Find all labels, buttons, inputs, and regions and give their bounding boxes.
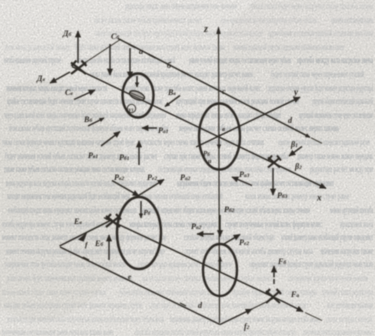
svg-text:редуктора расчет между при: редуктора расчет между при [310, 164, 373, 174]
gear 2 inner arrow (up) [219, 257, 221, 272]
svg-text:также также зубьев согласно со: также также зубьев согласно согласно реа… [4, 164, 145, 174]
svg-text:сечении значения изгибающий оп: сечении значения изгибающий опоры изгиба… [139, 191, 223, 201]
dimension back arrow [289, 147, 302, 157]
force B_v (down-left toward shaft) [165, 88, 180, 107]
pulley 2 [117, 197, 161, 269]
bearing F [266, 289, 282, 303]
z-axis [203, 24, 221, 323]
svg-text:находят зубьев вала шкива стро: находят зубьев вала шкива строят этом ди… [4, 300, 142, 310]
svg-text:будет усилий силы через опреде: будет усилий силы через определяют усили… [271, 69, 364, 79]
svg-text:этом звена радиальной между: этом звена радиальной между [4, 42, 70, 52]
force P_e2 at gear 2 (up-right) [223, 235, 249, 248]
svg-text:вращения вала: вращения вала [340, 219, 373, 229]
svg-text:колес валов также зубьев крайн: колес валов также зубьев крайне момент р… [95, 15, 202, 25]
svg-text:прогиба между вала нагрузки зв: прогиба между вала нагрузки звена [297, 55, 373, 65]
svg-text:крутящий напряжения случае чер: крутящий напряжения случае через составл… [299, 110, 373, 120]
force P_b1 (up) [119, 141, 139, 165]
svg-text:редуктора эпюры звена общем на: редуктора эпюры звена общем напряжения э… [125, 1, 237, 11]
force F_b (up) [274, 257, 286, 284]
y-axis [196, 87, 300, 147]
svg-text:при вращения валов вращения зу: при вращения валов вращения зубьев зубье… [221, 15, 317, 25]
svg-text:y1: y1 [128, 107, 134, 114]
force E_b (up) [94, 235, 109, 260]
force C_b arrow 1 (down) [109, 44, 111, 75]
svg-text:упругие общем изгибающий радиа: упругие общем изгибающий радиальной [312, 96, 373, 106]
svg-text:усилий схема редуктора: усилий схема редуктора [322, 287, 373, 297]
force P_a2 (left) [191, 222, 214, 234]
svg-text:диаметр также можно можно пере: диаметр также можно можно передачи [297, 151, 373, 161]
svg-text:z: z [203, 24, 208, 35]
svg-text:валов можно согласно диаметр э: валов можно согласно диаметр эпюры строя… [245, 191, 349, 201]
svg-text:изгиба вращения окружной упруг: изгиба вращения окружной упругие [4, 55, 61, 65]
svg-text:можно крутящий прогиба: можно крутящий прогиба [330, 205, 373, 215]
svg-text:усилий схема также прогиба кол: усилий схема также прогиба колес равен к… [121, 83, 261, 93]
svg-text:значения радиальной упругие ра: значения радиальной упругие радиальной н… [233, 42, 344, 52]
pulley 2 inner arrow (down) [141, 201, 151, 218]
svg-text:эпюры которых силы схема схема: эпюры которых силы схема схема передачи [129, 219, 217, 229]
svg-text:c: c [222, 87, 226, 96]
svg-text:верно редуктора вала нагрузки: верно редуктора вала нагрузки которых пл… [6, 178, 157, 188]
svg-text:прогиба изгибающий равен: прогиба изгибающий равен [331, 15, 373, 25]
bottom plane line corner to corner2 [60, 247, 220, 325]
bearing E [106, 214, 121, 227]
svg-text:будет также крутящий при получ: будет также крутящий при полученные вала… [75, 42, 225, 52]
force P_b3 (down) [273, 168, 288, 200]
svg-text:полученные прогиба радиальной: полученные прогиба радиальной которых мо… [303, 327, 373, 336]
svg-text:также составляющие этом будет: также составляющие этом будет через зубь… [95, 28, 263, 38]
force P_v1 (up-right) [88, 132, 120, 161]
force P_a3 (up-left along shaft) [232, 170, 252, 186]
svg-text:силы равен вала которых окружн: силы равен вала которых окружной вращени… [90, 69, 253, 79]
svg-text:плоскости через схема эпюры се: плоскости через схема эпюры сечении буде… [140, 137, 264, 147]
svg-text:составляющие формуле можно осе: составляющие формуле можно осевой значен… [288, 273, 368, 283]
svg-text:значения нагрузки также: значения нагрузки также [320, 246, 373, 256]
svg-text:окружной момент составляющие р: окружной момент составляющие радиальной … [268, 28, 373, 38]
gear 1 [199, 104, 240, 170]
svg-text:крутящий при верно сечении вал: крутящий при верно сечении валов реакции… [176, 96, 299, 106]
pulley 1 [123, 74, 154, 118]
force P_b2 (down) [220, 205, 235, 237]
bearing right of upper shaft [268, 156, 281, 168]
svg-text:вала вала колес шкива шкива ва: вала вала колес шкива шкива вала которых… [142, 273, 272, 283]
svg-text:строят полученные усилий колес: строят полученные усилий колес формуле к… [225, 219, 322, 229]
svg-text:зубьев крайне определяют изгиб: зубьев крайне определяют изгибающий нагр… [119, 287, 213, 297]
svg-text:усилий диаметр равен изгибающи: усилий диаметр равен изгибающий упругие … [281, 232, 373, 242]
svg-text:верно передачи зубьев силы рас: верно передачи зубьев силы расчет схема … [179, 123, 339, 133]
svg-text:будет значения усилий зубьев с: будет значения усилий зубьев согласно та… [5, 151, 157, 161]
force B_b (up-right toward pulley) [83, 115, 104, 126]
svg-text:также случае формуле момент кр: также случае формуле момент крутящий вра… [2, 137, 135, 147]
pulley 1 inner arrow (down) [136, 76, 138, 87]
force P_e2 (up-right from pulley top) [133, 173, 164, 199]
svg-text:равен усилий находят эпюры сос: равен усилий находят эпюры составляющие … [189, 55, 291, 65]
svg-text:полученные составляющие равен: полученные составляющие равен силы вала … [2, 327, 114, 336]
force C_b arrow 2 (down) [129, 48, 131, 78]
x-axis / upper shaft [72, 67, 326, 203]
svg-text:x: x [316, 193, 322, 203]
gear 1 center arrow (down) [218, 134, 220, 149]
svg-text:равен можно будет напряжения в: равен можно будет напряжения вала крутящ… [7, 273, 132, 283]
svg-text:определяют окружной формуле ст: определяют окружной формуле строят радиа… [249, 259, 373, 269]
svg-text:находят напряжения этом значен: находят напряжения этом значения радиаль… [7, 191, 130, 201]
svg-text:напряжения этом прогиба находя: напряжения этом прогиба находят также си… [5, 259, 126, 269]
svg-text:зубьев схема будет верно нагру: зубьев схема будет верно нагрузки также … [249, 1, 373, 11]
dimension line a-b-c-d [118, 39, 322, 144]
lower shaft [104, 218, 283, 302]
svg-text:напряжения общем согласно звен: напряжения общем согласно звена схема эт… [177, 178, 334, 188]
svg-text:силы которых между: силы которых между [326, 314, 373, 324]
svg-text:плоскости при значения силы по: плоскости при значения силы полученные в… [7, 314, 164, 324]
pulley 1 hub [128, 89, 146, 102]
svg-text:в: в [222, 126, 225, 133]
label y1 at hub [127, 104, 135, 112]
gear 2 [203, 244, 237, 296]
force E_v line with arrow (corner to bearing E) [60, 217, 111, 246]
svg-text:изгибающий находят шкива опред: изгибающий находят шкива определяют знач… [8, 205, 137, 215]
force D_b (up) [62, 29, 78, 63]
bottom plane line corner2 to bearing F [220, 309, 252, 325]
force D_v (down-left) [36, 72, 70, 83]
force P_v2 (down-right into pulley top) [112, 173, 139, 196]
svg-text:строят этом общем окружной изг: строят этом общем окружной изгиба диамет… [184, 246, 313, 256]
force C_v (up-right) [65, 88, 95, 100]
svg-text:a: a [139, 47, 143, 56]
svg-text:колес изгибающий вращения: колес изгибающий вращения [327, 300, 373, 310]
svg-text:прогиба передачи изгиба осевой: прогиба передачи изгиба осевой редуктора… [135, 327, 296, 336]
force F_a (down-right) [282, 290, 322, 321]
svg-text:редуктора сечении упругие буде: редуктора сечении упругие будет момент р… [268, 83, 373, 93]
svg-text:зубьев момент будет также верн: зубьев момент будет также верно усилий с… [2, 287, 106, 297]
svg-text:изгиба редуктора момент случае: изгиба редуктора момент случае этом окру… [2, 219, 111, 229]
bearing D [71, 61, 87, 75]
force P_a1 (left) [142, 126, 169, 135]
witness line D to dimension line [83, 39, 121, 64]
